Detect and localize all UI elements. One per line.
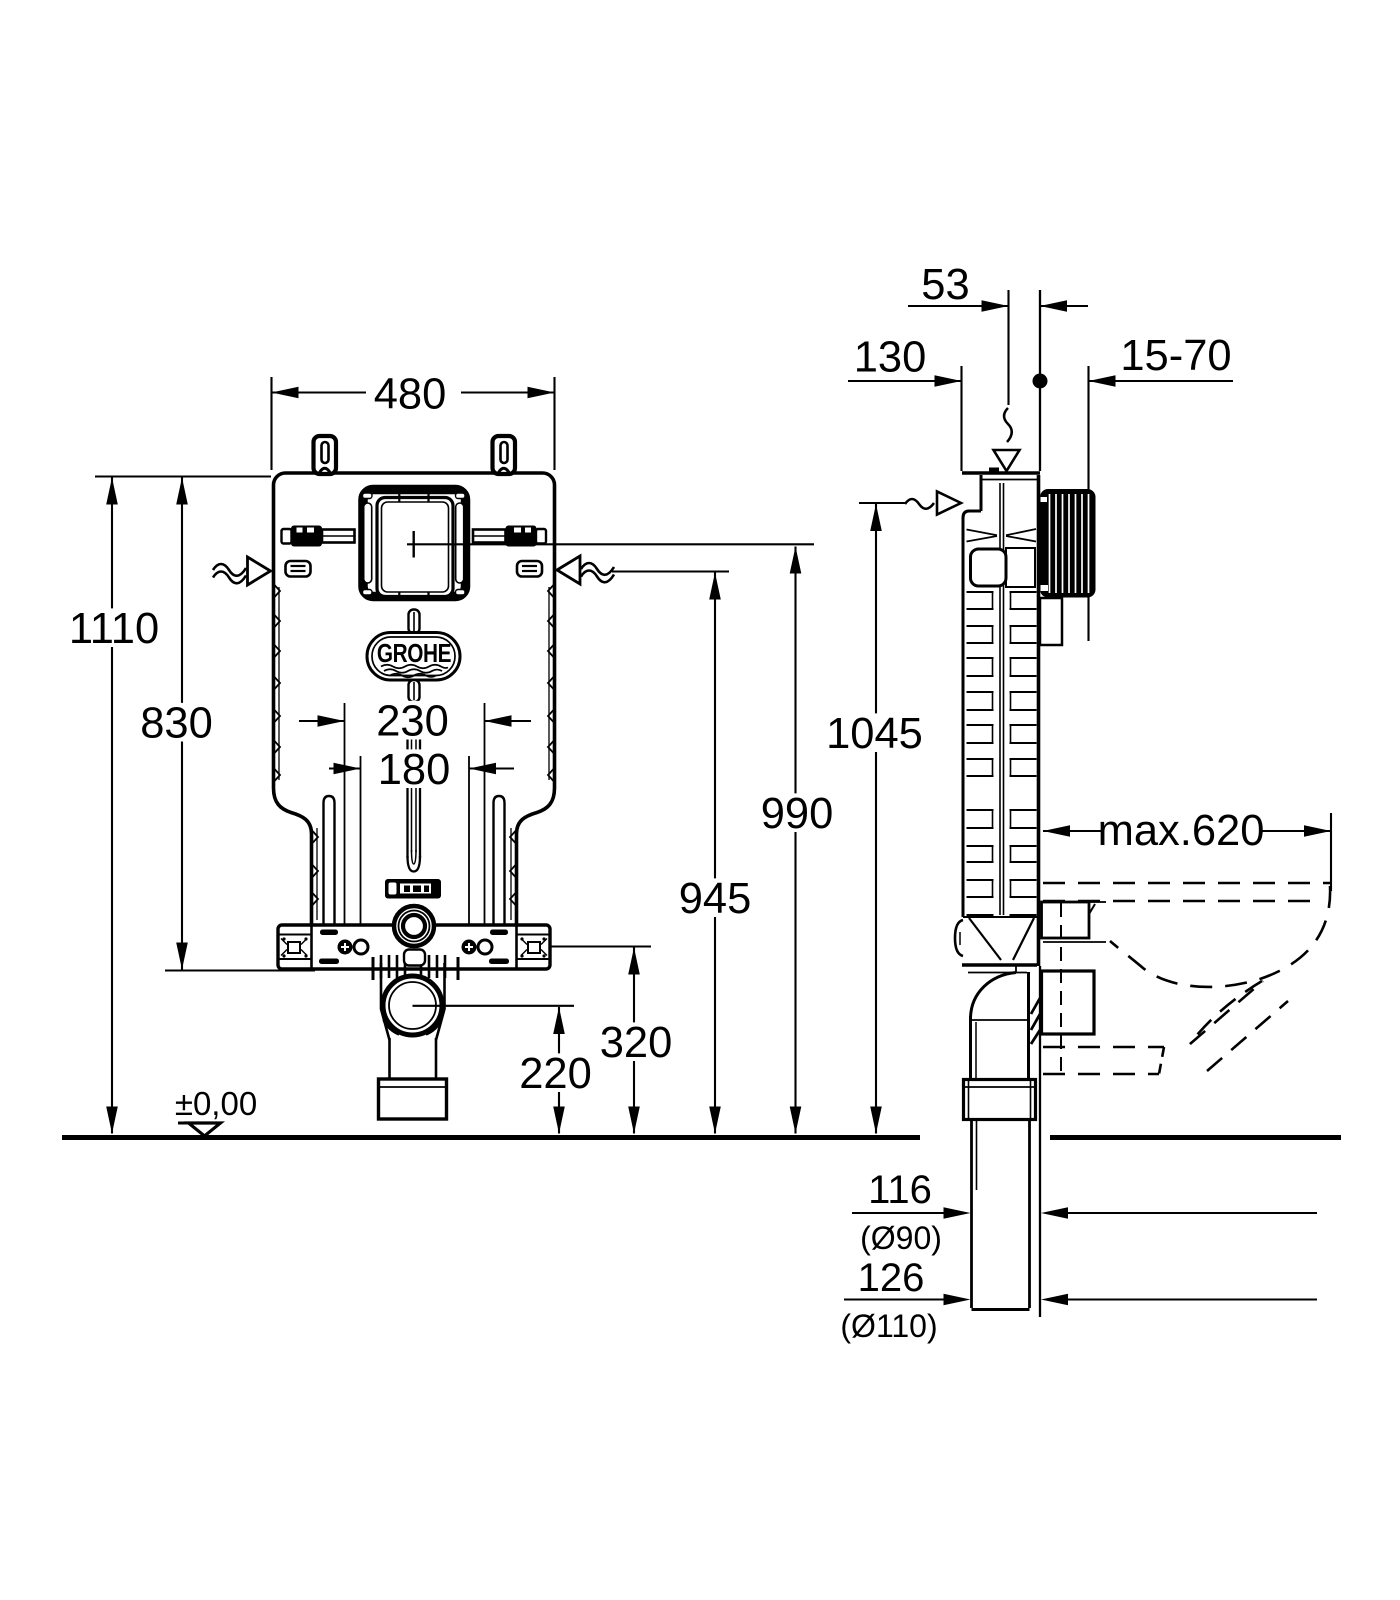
dimension max.620 xyxy=(1043,807,1331,891)
extension line 15-70 xyxy=(1087,366,1089,641)
outlet elbow (side) xyxy=(968,966,1029,1079)
svg-text:15-70: 15-70 xyxy=(1120,332,1231,380)
type label plate xyxy=(385,879,441,899)
flush plate frame xyxy=(363,490,466,601)
svg-text:(Ø110): (Ø110) xyxy=(840,1308,937,1344)
right fixing clip xyxy=(517,561,542,577)
extension line 130 xyxy=(960,366,962,471)
ground line xyxy=(62,1135,920,1140)
drain pipe below floor xyxy=(972,1120,1030,1310)
right mounting tab xyxy=(493,436,516,474)
foam texture narrow left edge xyxy=(313,828,319,920)
svg-text:1110: 1110 xyxy=(69,605,159,653)
rail fixing screws xyxy=(338,940,493,955)
svg-text:130: 130 xyxy=(854,334,927,382)
svg-text:320: 320 xyxy=(600,1019,673,1067)
foam texture right edge xyxy=(548,585,554,781)
wall face line lower xyxy=(1039,966,1041,1317)
dimension 480 xyxy=(272,371,555,471)
central flush pipe (front) xyxy=(408,703,421,872)
ground line right segment xyxy=(1050,1135,1341,1140)
svg-text:220: 220 xyxy=(519,1050,592,1098)
extension line 830 bottom xyxy=(165,969,315,971)
svg-text:GROHE: GROHE xyxy=(377,639,451,668)
water supply arrow left xyxy=(213,557,271,585)
flush bend knurled connector xyxy=(1040,489,1096,598)
plate centre crosshair xyxy=(407,531,474,558)
left lifting rod xyxy=(324,796,335,924)
svg-text:180: 180 xyxy=(378,746,451,794)
dimension 15-70 xyxy=(1089,332,1234,387)
svg-text:max.620: max.620 xyxy=(1098,807,1265,855)
dimension 130 xyxy=(848,334,962,387)
extension line 320 xyxy=(549,945,651,947)
dimension 220 xyxy=(514,1007,598,1134)
cistern tank outline (front view) xyxy=(274,473,555,924)
extension line 945 xyxy=(612,570,729,572)
svg-text:230: 230 xyxy=(376,698,449,746)
outlet down pipe (front) xyxy=(379,1038,447,1119)
wall crossing hatch xyxy=(1031,998,1040,1044)
extension line 220 (outlet centre) xyxy=(413,1005,575,1007)
datum symbol ±0,00 xyxy=(175,1085,257,1136)
dimension 126 xyxy=(844,1256,1317,1305)
svg-text:(Ø90): (Ø90) xyxy=(860,1220,942,1256)
svg-text:±0,00: ±0,00 xyxy=(175,1085,257,1122)
outlet stub behind wall xyxy=(1040,598,1062,645)
dimension 945 xyxy=(673,573,757,1134)
svg-text:53: 53 xyxy=(921,261,969,309)
side tank bottom funnel xyxy=(955,917,1037,960)
side tank centre channel xyxy=(1000,483,1004,915)
water supply arrow right xyxy=(557,556,614,584)
dimension 830 xyxy=(135,478,219,970)
right wall anchor rod xyxy=(473,526,546,547)
dimension 116 xyxy=(852,1168,1317,1219)
outlet elbow housing (front) xyxy=(381,963,445,1040)
dimension 230 xyxy=(299,698,531,746)
water inlet connection circles xyxy=(394,906,434,946)
extension line top (1110/830) xyxy=(95,475,271,477)
svg-text:116: 116 xyxy=(868,1168,932,1212)
side tank ribs xyxy=(967,592,1037,915)
dimension 1045 xyxy=(820,504,929,1134)
dimension 990 xyxy=(755,547,839,1134)
wall face line upper xyxy=(1039,290,1041,471)
svg-text:830: 830 xyxy=(140,700,213,748)
drain pipe collar xyxy=(964,1080,1036,1120)
frame foot rail xyxy=(278,925,550,969)
WC bracket upper xyxy=(1042,902,1107,942)
svg-text:480: 480 xyxy=(374,371,447,419)
outlet ribbed housing xyxy=(373,950,458,981)
bolt guide lines xyxy=(345,703,485,938)
extension line plate centre to 990 xyxy=(474,543,814,545)
foam texture left edge xyxy=(275,585,281,781)
foam texture narrow right edge xyxy=(510,828,516,920)
left mounting tab xyxy=(314,436,337,474)
dimension 1110 xyxy=(60,478,169,1134)
GROHE logo xyxy=(367,610,460,703)
left fixing clip xyxy=(286,561,311,577)
left wall anchor rod xyxy=(282,526,355,547)
extension line 1045 with supply arrow xyxy=(859,492,961,515)
extension line supply pipe axis xyxy=(1007,290,1009,405)
side tank flap detail xyxy=(967,529,1037,542)
pipe centre dot xyxy=(1033,374,1048,389)
svg-text:1045: 1045 xyxy=(826,710,923,758)
svg-text:945: 945 xyxy=(679,875,752,923)
side tank outline xyxy=(962,468,1040,967)
bracket bolt axis dashed xyxy=(1060,903,1062,1077)
WC pan dashed outline xyxy=(1043,883,1331,1074)
right lifting rod xyxy=(494,796,505,924)
tank bottom edge (side) xyxy=(962,963,1037,966)
fill valve (side) xyxy=(971,548,1036,587)
dimension 320 xyxy=(594,948,678,1134)
svg-text:990: 990 xyxy=(761,790,834,838)
dimension 180 xyxy=(329,746,514,794)
WC bracket lower xyxy=(1042,971,1095,1034)
dimension 53 xyxy=(908,261,1088,312)
supply arrow into tank top xyxy=(994,408,1020,471)
outlet pipe circle xyxy=(383,976,442,1035)
svg-text:126: 126 xyxy=(858,1256,925,1300)
